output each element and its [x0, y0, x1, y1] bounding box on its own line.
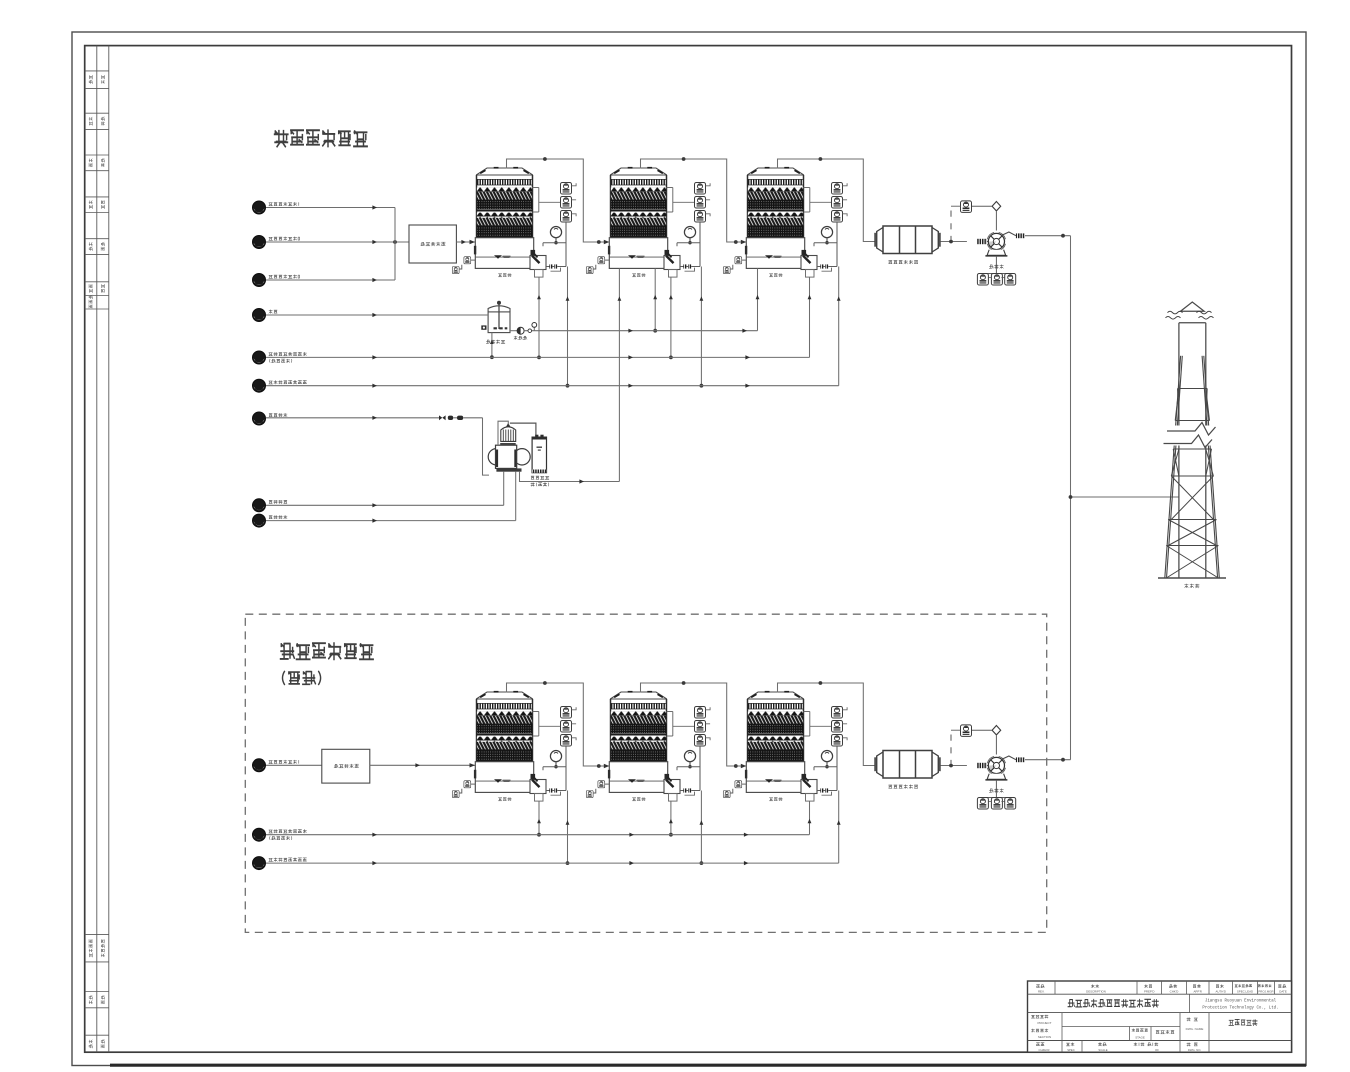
wire gas2	[266, 241, 409, 243]
svg-text:SPEC: SPEC	[1067, 1048, 1075, 1052]
tank label	[486, 340, 505, 344]
label scrubber T1b	[498, 797, 511, 801]
svg-text:PROJ.MGR: PROJ.MGR	[1258, 990, 1273, 994]
lattice horizontal ties	[1166, 389, 1218, 546]
source node 丙醛反应废气2	[253, 236, 266, 249]
svg-text:AUTH'D: AUTH'D	[1215, 990, 1226, 994]
scrubber tower T3b (bottom row)	[723, 691, 847, 801]
pre-treatment box	[409, 225, 456, 263]
svg-text:DWG. NAME: DWG. NAME	[1186, 1027, 1204, 1031]
pre-treatment box (bottom)	[322, 749, 370, 783]
svg-text:SPEC.LEAD: SPEC.LEAD	[1237, 990, 1253, 994]
scrubber tower T1b (bottom row)	[452, 691, 576, 801]
tank agitator	[498, 304, 500, 330]
tower drain pipes T2b	[670, 801, 672, 835]
main duct riser to stack	[1070, 236, 1072, 760]
title block row4	[1081, 1041, 1083, 1053]
title block row3	[1061, 1013, 1063, 1053]
tank side valve	[481, 325, 486, 329]
ozone line to tower2	[520, 472, 620, 482]
gas jumper 3 (top row)	[778, 159, 876, 242]
svg-text:DESCRIPTION: DESCRIPTION	[1086, 990, 1106, 994]
ozone cabinet label	[531, 476, 549, 479]
lattice X braces	[1166, 389, 1218, 579]
gas jumper 3 (bottom row)	[778, 683, 876, 766]
svg-text:STAGE: STAGE	[1135, 1036, 1145, 1040]
svg-text:APP'R: APP'R	[1193, 990, 1201, 994]
svg-text:Protection Technology Co., Ltd: Protection Technology Co., Ltd.	[1202, 1006, 1278, 1011]
source node 丙醛反应废气1	[253, 201, 266, 214]
svg-text:SCALE: SCALE	[1098, 1048, 1107, 1052]
label scrubber T3	[769, 273, 782, 277]
air line elbow down	[483, 418, 490, 475]
dashed enclosure of original system	[245, 614, 1046, 932]
title block	[1028, 981, 1292, 1052]
wire carbon to fan (top)	[941, 241, 967, 243]
gas jumper 1 (top row)	[507, 159, 610, 242]
wire gas manifold vertical	[394, 208, 396, 281]
scrubber tower T1 (top row)	[452, 167, 576, 277]
svg-text:Jiangsu Ruoyuan Environmental: Jiangsu Ruoyuan Environmental	[1205, 999, 1277, 1004]
svg-text:SECTION: SECTION	[1038, 1035, 1051, 1039]
source node 液碱	[253, 309, 266, 322]
stack label	[1184, 584, 1199, 588]
wire blower to ozone cabinet	[510, 423, 536, 437]
drawing name	[1229, 1019, 1258, 1025]
source node 丙醛反应废气3	[253, 274, 266, 287]
dosing line w/ fittings	[524, 330, 757, 332]
roots blower / ozone unit	[488, 449, 504, 465]
label scrubber T2b	[632, 797, 645, 801]
activated carbon adsorber (top)	[875, 226, 940, 254]
wire carbon to fan (bottom)	[941, 765, 967, 767]
wire gas1	[266, 207, 395, 209]
gas jumper 2 (top row)	[641, 159, 747, 242]
svg-text:CHK'D: CHK'D	[1170, 990, 1179, 994]
svg-text:CHZH03: CHZH03	[1039, 1048, 1050, 1052]
chemical tank	[488, 306, 510, 312]
gas jumper 2 (bottom row)	[641, 683, 747, 766]
source node 冷却水供	[253, 499, 266, 512]
stack base line	[1158, 577, 1226, 579]
waste water header (top)	[266, 356, 810, 358]
tank bottom drain	[491, 333, 493, 358]
svg-text:PROJECT: PROJECT	[1037, 1021, 1051, 1025]
svg-text:REV.: REV.	[1038, 990, 1045, 994]
sampling valve lollipop	[533, 327, 535, 331]
fan outlet duct (top)	[1025, 235, 1071, 237]
scrubber tower T2b (bottom row)	[586, 691, 710, 801]
title: new treatment system	[274, 129, 368, 147]
lattice tower legs	[1165, 356, 1220, 578]
tank outlet wire	[510, 330, 517, 332]
bottom signature strip cells	[85, 933, 109, 935]
induced draft fan (top)	[951, 201, 1025, 285]
source node 废水去污水站处理	[253, 828, 266, 841]
wire gas to box (bottom)	[266, 764, 322, 766]
source node 压缩空气	[253, 412, 266, 425]
scrubber tower T3 (top row)	[723, 167, 847, 277]
source node 废水去污水站处理	[253, 351, 266, 364]
industrial water header (top)	[266, 385, 839, 387]
activated carbon adsorber (bottom)	[875, 751, 940, 779]
margin signature strip verticals	[96, 46, 98, 1053]
svg-text:OF: OF	[1155, 1048, 1159, 1052]
wire box to tower1	[456, 241, 475, 243]
top signature strip cells	[85, 70, 109, 72]
duct branch to stack	[1071, 496, 1179, 498]
source node 工业水接自界区外	[253, 857, 266, 870]
label scrubber T3b	[769, 797, 782, 801]
stack smoke squiggles	[1168, 311, 1183, 314]
title: (reuse)	[283, 671, 321, 685]
dosing pump	[517, 327, 524, 334]
label scrubber T1	[498, 273, 511, 277]
blower left pipe loop	[498, 421, 508, 445]
induced draft fan (bottom)	[951, 725, 1025, 809]
ozone generator cabinet	[532, 437, 546, 473]
exhaust stack	[1179, 302, 1206, 578]
compressed air line	[266, 417, 439, 419]
label scrubber T2	[632, 273, 645, 277]
svg-text:PREP'D: PREP'D	[1144, 990, 1155, 994]
svg-text:DWG. NO.: DWG. NO.	[1188, 1048, 1202, 1052]
wire gas3	[266, 279, 395, 281]
blower top silencer vessel	[501, 427, 516, 442]
fan outlet duct (bottom)	[1025, 759, 1071, 761]
company name	[1189, 994, 1191, 1012]
source node 工业水接自界区外	[253, 379, 266, 392]
tower drain pipes T1	[538, 277, 540, 357]
source node 丙醛反应废气1	[253, 759, 266, 772]
page bottom thick edge	[110, 1064, 1306, 1067]
source node 冷却水回	[253, 514, 266, 527]
stack break symbol	[1161, 426, 1223, 446]
wire box to tower1 (bottom)	[370, 764, 476, 766]
tower drain pipes T2 + ozone riser	[618, 268, 620, 481]
tower drain pipes T3	[757, 268, 759, 330]
scrubber tower T2 (top row)	[586, 167, 710, 277]
gas jumper 1 (bottom row)	[507, 683, 610, 766]
tower drain pipes T1b	[538, 801, 540, 835]
svg-text:DATE: DATE	[1279, 990, 1287, 994]
air valves	[439, 415, 446, 420]
tower drain pipes T3b	[809, 801, 811, 835]
title: original treatment system	[280, 642, 374, 660]
